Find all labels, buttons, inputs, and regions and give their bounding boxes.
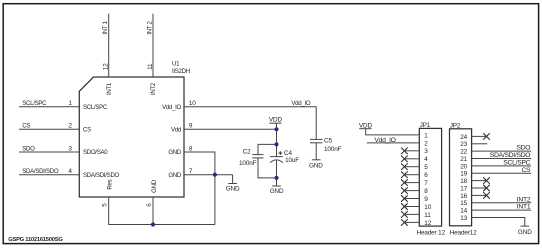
svg-text:GND: GND	[270, 188, 284, 195]
svg-text:18: 18	[460, 178, 467, 185]
svg-text:U1: U1	[172, 60, 180, 67]
ground symbol at JP2 pin 13	[518, 226, 532, 236]
wire net INT2 from U1 top	[146, 14, 153, 77]
wire GND vertical junction to bottom	[214, 175, 216, 225]
svg-text:GND: GND	[151, 179, 158, 193]
junction node 3	[274, 176, 278, 180]
svg-text:GND: GND	[168, 172, 182, 179]
wire Vdd_IO from U1 pin 10 to C5	[184, 100, 316, 139]
wire JP2 pin 13 to ground	[472, 218, 525, 227]
JP1 pin 1	[424, 132, 428, 139]
junction node 1	[274, 127, 278, 131]
svg-text:10: 10	[424, 204, 431, 211]
svg-text:16: 16	[460, 193, 467, 200]
svg-text:GSPG 1102161500SG: GSPG 1102161500SG	[8, 237, 63, 243]
svg-text:IIS2DH: IIS2DH	[172, 68, 190, 75]
JP1 pin 4	[401, 156, 428, 164]
svg-text:CS: CS	[521, 167, 531, 174]
svg-text:Vdd_IO: Vdd_IO	[162, 104, 181, 111]
wire net INT1 from U1 top	[102, 14, 109, 77]
svg-text:C5: C5	[324, 137, 332, 144]
svg-text:Vdd_IO: Vdd_IO	[291, 100, 310, 107]
ground symbol below C5	[309, 160, 323, 170]
U1 pin 11 INT2	[147, 63, 157, 95]
svg-text:C4: C4	[284, 150, 292, 157]
svg-text:SDO: SDO	[22, 145, 35, 152]
wire net SDA/SDI/SDO to U1	[19, 168, 79, 175]
JP1 pin 12	[401, 219, 432, 227]
svg-text:17: 17	[460, 185, 467, 192]
svg-text:8: 8	[424, 188, 428, 195]
svg-text:7: 7	[189, 168, 193, 175]
svg-text:7: 7	[424, 180, 428, 187]
svg-text:GND: GND	[168, 149, 182, 156]
JP2 pin 18	[460, 177, 490, 185]
U1 pin 3 SDO/SA0	[68, 145, 108, 156]
svg-text:12: 12	[424, 220, 431, 227]
JP2 pin 19	[460, 167, 531, 178]
svg-text:2: 2	[424, 140, 428, 147]
JP2 pin 24	[460, 133, 490, 141]
svg-text:23: 23	[460, 141, 467, 148]
svg-text:JP1: JP1	[420, 122, 431, 129]
wire C4 bottom	[276, 160, 278, 186]
svg-text:CS: CS	[83, 127, 91, 134]
svg-text:21: 21	[460, 156, 467, 163]
wire branch to C2	[258, 144, 277, 154]
U1 pin 12 INT1	[103, 63, 113, 95]
svg-text:INT1: INT1	[106, 82, 113, 95]
svg-text:9: 9	[189, 123, 193, 130]
svg-text:SDA/SDI/SDO: SDA/SDI/SDO	[22, 168, 59, 175]
power VDD symbol	[269, 116, 283, 144]
svg-text:CS: CS	[22, 123, 30, 130]
JP1 pin 5	[401, 163, 428, 171]
IC U1 IIS2DH outline	[79, 77, 184, 197]
svg-text:Header 12: Header 12	[417, 229, 446, 236]
JP1 pin 10	[401, 203, 432, 211]
wire C5 bottom to ground	[315, 143, 317, 160]
svg-text:14: 14	[460, 208, 467, 215]
svg-text:24: 24	[460, 134, 467, 141]
junction node 2	[274, 142, 278, 146]
svg-text:SDA/SDI/SDO: SDA/SDI/SDO	[83, 172, 120, 179]
svg-text:3: 3	[424, 148, 428, 155]
svg-text:C2: C2	[243, 149, 251, 156]
U1 pin 6 GND	[146, 179, 158, 206]
JP1 pin 7	[401, 179, 428, 187]
wire GND from U1 pin 7	[184, 174, 233, 176]
JP2 pin 14	[460, 204, 531, 215]
svg-text:VDD: VDD	[269, 116, 283, 123]
JP1 pin 11	[401, 211, 431, 219]
JP1 pin 8	[401, 187, 428, 195]
svg-text:SDO: SDO	[516, 145, 530, 152]
U1 pin 7 GND	[168, 168, 193, 179]
JP2 pin 21	[460, 152, 531, 163]
wire net SDO to U1	[19, 145, 79, 152]
svg-text:9: 9	[424, 196, 428, 203]
svg-text:5: 5	[424, 164, 428, 171]
U1 pin 5 Res	[102, 179, 114, 206]
connector JP2 box	[450, 129, 472, 226]
svg-text:10uF: 10uF	[285, 157, 299, 164]
U1 pin 8 GND	[168, 145, 193, 156]
svg-text:6: 6	[424, 172, 428, 179]
svg-text:INT 1: INT 1	[102, 20, 109, 34]
JP2 pin 13	[460, 215, 467, 222]
svg-text:4: 4	[424, 156, 428, 163]
wire GND from U1 pin 8	[184, 152, 215, 175]
svg-text:100nF: 100nF	[239, 160, 257, 167]
JP1 pin 3	[401, 148, 428, 156]
svg-text:JP2: JP2	[450, 123, 461, 130]
wire net Vdd_IO to JP1 pin 2	[367, 137, 420, 144]
svg-text:6: 6	[146, 203, 153, 207]
wire net CS to U1	[19, 123, 79, 130]
svg-text:19: 19	[460, 171, 467, 178]
JP2 pin 17	[460, 185, 490, 193]
capacitor C2 100nF	[239, 149, 263, 167]
U1 pin 2 CS	[68, 123, 91, 134]
JP2 pin 22	[460, 145, 531, 156]
capacitor C5 100nF	[310, 137, 342, 153]
U1 pin 9 Vdd	[171, 123, 193, 134]
svg-text:GND: GND	[309, 162, 323, 169]
svg-text:11: 11	[424, 212, 431, 219]
junction node 5	[151, 222, 155, 226]
svg-text:20: 20	[460, 163, 467, 170]
svg-text:SDO/SA0: SDO/SA0	[83, 149, 108, 156]
wire Vdd from U1 pin 9 to VDD rail	[184, 128, 277, 130]
svg-text:GND: GND	[226, 186, 240, 193]
ground symbol below C4	[270, 186, 284, 195]
ground symbol at U1 pins 7/8	[226, 175, 240, 193]
U1 pin 4 SDA/SDI/SDO	[68, 168, 119, 179]
svg-text:1: 1	[68, 100, 72, 107]
svg-text:SCL/SPC: SCL/SPC	[83, 104, 108, 111]
JP1 pin 6	[401, 171, 428, 179]
svg-text:Header12: Header12	[450, 230, 477, 237]
svg-text:8: 8	[189, 145, 193, 152]
JP2 pin 16	[460, 192, 490, 200]
svg-text:15: 15	[460, 200, 467, 207]
svg-text:INT2: INT2	[517, 196, 531, 203]
svg-text:3: 3	[68, 145, 72, 152]
svg-text:2: 2	[68, 123, 72, 130]
capacitor C4 10uF polarized	[270, 150, 299, 164]
svg-text:GND: GND	[518, 229, 532, 236]
JP1 pin 9	[401, 195, 428, 203]
wire GND bottom from U1 pins 5 and 6	[109, 197, 215, 225]
JP2 pin 20	[460, 160, 531, 171]
U1 pin 1 SCL/SPC	[68, 100, 107, 111]
svg-text:INT2: INT2	[150, 82, 157, 95]
svg-text:Vdd_IO: Vdd_IO	[374, 137, 395, 144]
svg-text:1: 1	[424, 132, 428, 139]
svg-text:13: 13	[460, 215, 467, 222]
svg-text:22: 22	[460, 149, 467, 156]
svg-text:4: 4	[68, 168, 72, 175]
wire net SCL/SPC to U1	[19, 100, 79, 107]
svg-text:100nF: 100nF	[324, 146, 342, 153]
JP2 pin 23	[460, 141, 487, 148]
svg-text:SDA/SDI/SDO: SDA/SDI/SDO	[490, 152, 531, 159]
JP2 pin 15	[460, 196, 531, 207]
wire VDD rail down to capacitors	[276, 144, 278, 156]
wire C2 bottom to ground rail	[258, 158, 277, 178]
connector JP1 box	[419, 128, 441, 226]
svg-text:INT1: INT1	[517, 204, 531, 211]
svg-text:10: 10	[189, 100, 196, 107]
svg-text:INT 2: INT 2	[146, 20, 153, 34]
wire VDD to JP1 pin 1	[366, 129, 420, 135]
JP1 pin 2	[424, 140, 428, 147]
svg-text:Vdd: Vdd	[171, 127, 181, 134]
svg-text:5: 5	[102, 203, 109, 207]
svg-text:Res: Res	[107, 179, 114, 189]
svg-text:SCL/SPC: SCL/SPC	[22, 100, 47, 107]
U1 pin 10 Vdd_IO	[162, 100, 196, 111]
svg-text:SCL/SPC: SCL/SPC	[503, 160, 530, 167]
power VDD symbol at JP1 pin 1	[359, 122, 373, 129]
junction node 4	[213, 173, 217, 177]
